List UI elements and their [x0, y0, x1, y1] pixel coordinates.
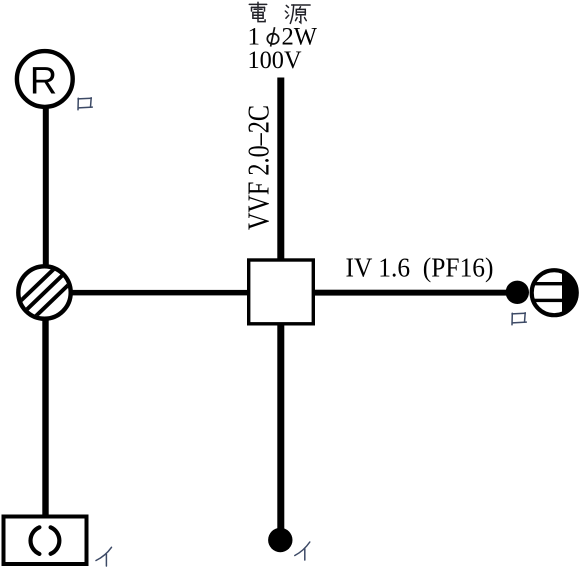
label 電 (power source kanji DEN): [249, 2, 266, 21]
junction box (center square): [249, 260, 314, 324]
wire: box bottom vertical: [277, 324, 284, 536]
joint circle with diagonal hatching: [18, 266, 70, 318]
phi symbol: [267, 27, 278, 46]
wire: lamp R to joint circle vertical: [43, 106, 49, 268]
label i (katakana) near bottom dot: [295, 542, 310, 560]
svg-text:R: R: [30, 61, 57, 103]
label i (katakana) near bottom box: [96, 547, 112, 566]
svg-text:IV 1.6 (PF16): IV 1.6 (PF16): [346, 253, 494, 283]
label ro (katakana) near right lamp: [512, 313, 526, 325]
label ro (katakana) near lamp R: [78, 98, 92, 110]
svg-text:100V: 100V: [248, 47, 302, 74]
wire: box left horizontal: [70, 290, 249, 296]
lamp symbol right (circle, right segment filled, two bars): [532, 270, 577, 315]
svg-text:VVF 2.0–2C: VVF 2.0–2C: [241, 105, 276, 230]
wire: box right horizontal (IV 1.6 PF16): [315, 290, 511, 296]
connection dot (right): [506, 281, 529, 304]
bottom appliance box with ( ): [4, 517, 87, 565]
wire: power feed vertical (top): [277, 78, 284, 260]
label 源 (power source kanji GEN): [285, 5, 310, 23]
wire: joint circle to bottom box vertical: [42, 318, 48, 516]
connection dot (bottom): [268, 528, 292, 552]
lamp R (circle with R): [17, 51, 73, 107]
